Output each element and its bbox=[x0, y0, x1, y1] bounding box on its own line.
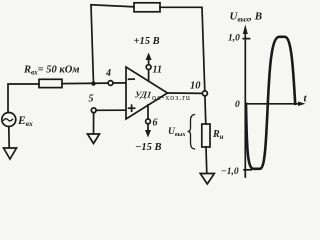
svg-text:4: 4 bbox=[105, 68, 111, 79]
svg-text:Eвх: Eвх bbox=[17, 115, 33, 128]
wire pin5 to ground bbox=[93, 113, 95, 134]
node A junction dot bbox=[91, 81, 95, 85]
svg-text:ос-хоз.ru: ос-хоз.ru bbox=[152, 93, 191, 102]
brace Uвых bbox=[188, 115, 195, 150]
graph: axis Y bbox=[244, 31, 246, 177]
ground below source bbox=[4, 148, 17, 159]
svg-text:t: t bbox=[304, 93, 308, 105]
svg-text:Uвых, В: Uвых, В bbox=[230, 11, 263, 24]
ground below pin 5 bbox=[88, 134, 100, 144]
svg-text:Uвых: Uвых bbox=[168, 127, 186, 138]
source Eвх (AC) bbox=[2, 113, 16, 127]
wire input rail from source to op-amp inverting input bbox=[8, 84, 39, 113]
resistor R1 Rвх bbox=[39, 79, 62, 87]
feedback wire left vertical bbox=[91, 5, 134, 84]
svg-text:10: 10 bbox=[190, 81, 201, 92]
wire source to ground bbox=[8, 127, 10, 149]
svg-text:−1,0: −1,0 bbox=[221, 167, 239, 177]
feedback wire right down to output node bbox=[160, 7, 205, 91]
svg-text:1,0: 1,0 bbox=[228, 34, 240, 44]
wire Rн to ground bbox=[205, 147, 208, 174]
svg-text:6: 6 bbox=[153, 118, 158, 129]
svg-text:УД1: УД1 bbox=[134, 90, 152, 100]
svg-text:−15 В: −15 В bbox=[135, 142, 162, 153]
op-amp U1 140УД1 bbox=[126, 67, 168, 119]
svg-text:0: 0 bbox=[235, 100, 240, 110]
ground below Rн bbox=[200, 174, 214, 185]
pin 10 terminal bbox=[202, 91, 207, 96]
svg-text:11: 11 bbox=[153, 65, 162, 76]
tick +1.0 bbox=[243, 38, 249, 40]
resistor Rн bbox=[202, 124, 210, 147]
wire pin5 to op-amp bbox=[96, 109, 126, 111]
pin 11 (+15V supply) bbox=[148, 70, 150, 81]
waveform sine bbox=[246, 37, 295, 169]
wire node to Rн bbox=[204, 96, 207, 124]
svg-text:5: 5 bbox=[89, 94, 94, 105]
svg-text:+15 В: +15 В bbox=[134, 36, 160, 47]
wire op-amp output to node 10 bbox=[168, 92, 203, 94]
tick -1.0 bbox=[244, 169, 251, 171]
pin 4 terminal bbox=[108, 81, 113, 86]
svg-text:Rн: Rн bbox=[212, 129, 224, 141]
pin 5 terminal bbox=[91, 108, 96, 113]
pin 6 (-15V supply) bbox=[147, 105, 149, 119]
svg-text:Rвх= 50 кОм: Rвх= 50 кОм bbox=[23, 65, 80, 77]
resistor R2 feedback bbox=[134, 3, 160, 12]
graph: axis X bbox=[245, 103, 301, 105]
